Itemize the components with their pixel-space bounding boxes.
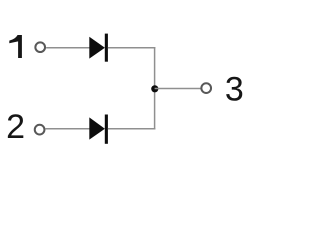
diode D2 anode triangle bbox=[89, 117, 105, 139]
wire node to pin 3 bbox=[155, 88, 201, 90]
diode D1 cathode bar bbox=[105, 34, 108, 62]
svg-text:3: 3 bbox=[225, 70, 244, 108]
wire pin1 to D1 anode bbox=[46, 47, 90, 49]
diode D2 cathode bar bbox=[105, 115, 108, 144]
wire pin2 to D2 anode bbox=[46, 128, 91, 130]
pin 1 terminal circle bbox=[35, 42, 45, 52]
junction node dot bbox=[151, 85, 158, 92]
wire D1 cathode to corner bbox=[108, 47, 155, 49]
svg-text:2: 2 bbox=[6, 108, 25, 146]
pin 1 label bbox=[9, 35, 22, 58]
wire vertical bus from D1 corner down to D2 corner bbox=[154, 47, 156, 130]
wire D2 cathode to corner bbox=[108, 128, 155, 130]
pin 2 terminal circle bbox=[35, 125, 45, 135]
pin 3 terminal circle bbox=[201, 83, 211, 93]
diode D1 anode triangle bbox=[89, 37, 105, 59]
